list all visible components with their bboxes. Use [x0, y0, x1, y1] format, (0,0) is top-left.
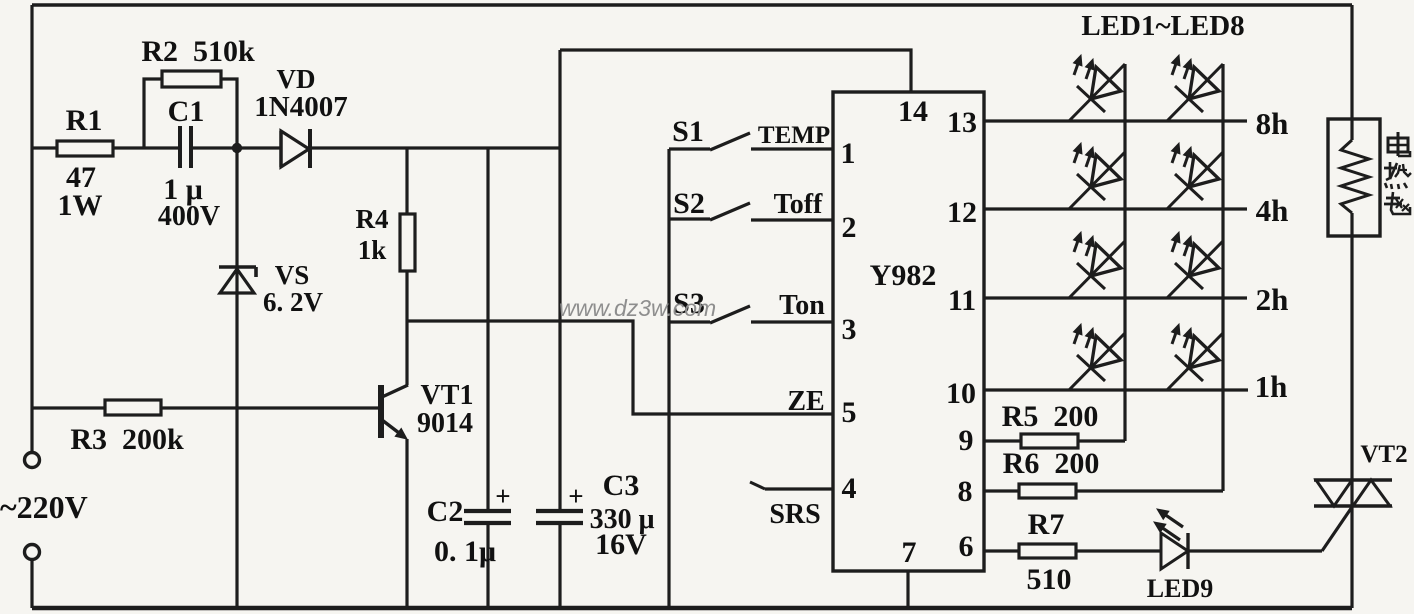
- triac VT2: [1314, 480, 1392, 506]
- label LED9: [1147, 574, 1213, 603]
- svg-text:14: 14: [898, 95, 928, 128]
- watermark www.dz3w.com: [559, 295, 716, 321]
- resistor R5: [1021, 434, 1078, 448]
- LED LED8: [1167, 324, 1223, 390]
- svg-text:12: 12: [947, 196, 977, 229]
- label Toff: [774, 189, 823, 220]
- svg-text:R7: R7: [1028, 508, 1065, 541]
- svg-text:VD: VD: [277, 64, 316, 94]
- svg-text:10: 10: [946, 377, 976, 410]
- svg-text:5: 5: [842, 396, 857, 429]
- label C2 value 0.1u: [434, 535, 496, 568]
- svg-text:C1: C1: [168, 95, 205, 128]
- label S1: [672, 115, 704, 148]
- label pin 13: [947, 106, 977, 139]
- LED LED3: [1069, 232, 1125, 298]
- diode VD 1N4007: [281, 129, 310, 168]
- label pin 4: [842, 472, 857, 505]
- LED LED7: [1167, 232, 1223, 298]
- wire LED column 2: [1221, 64, 1224, 491]
- wire R3 to VT1 base: [160, 406, 381, 409]
- svg-text:8: 8: [958, 475, 973, 508]
- resistor heating element zigzag: [1341, 140, 1369, 213]
- wire triac gate diagonal: [1322, 507, 1352, 551]
- svg-text:8h: 8h: [1256, 106, 1289, 141]
- label VS value 6.2V: [263, 287, 324, 317]
- node AC terminal lower: [25, 545, 40, 560]
- label C2: [427, 495, 464, 528]
- svg-text:VT1: VT1: [421, 380, 474, 411]
- svg-text:Toff: Toff: [774, 189, 823, 220]
- label 8h: [1256, 106, 1289, 141]
- wire pin 9 to R5: [984, 439, 1021, 442]
- wire collector to ZE pin 5: [407, 321, 833, 414]
- wire pin 6 to R7: [984, 549, 1019, 552]
- label SRS: [769, 499, 820, 530]
- wire Toff to pin 2: [751, 218, 833, 221]
- wire C2 top lead: [486, 148, 489, 510]
- wire pin 8 to R6: [984, 489, 1019, 492]
- svg-text:1k: 1k: [358, 235, 387, 265]
- label R1 value 47: [66, 161, 96, 194]
- IC U1 Y982 body: [833, 92, 984, 571]
- label 2h: [1256, 282, 1289, 317]
- svg-text:VS: VS: [275, 260, 310, 290]
- svg-text:11: 11: [948, 284, 976, 317]
- wire top rail down to heater: [1350, 5, 1353, 140]
- label LED1~LED8: [1081, 10, 1244, 42]
- label pin 5: [842, 396, 857, 429]
- label VT2: [1360, 441, 1407, 468]
- svg-text:TEMP: TEMP: [758, 122, 830, 149]
- svg-text:LED1~LED8: LED1~LED8: [1081, 10, 1244, 42]
- label pin 3: [842, 313, 857, 346]
- label C2 plus: [495, 481, 510, 511]
- label pin 11: [948, 284, 976, 317]
- svg-text:2h: 2h: [1256, 282, 1289, 317]
- wire VS vertical: [235, 148, 238, 608]
- wire TEMP to pin 1: [751, 147, 833, 150]
- switch S1: [669, 133, 750, 150]
- wire row 8h from pin 13: [984, 119, 1247, 122]
- resistor R1: [57, 141, 113, 156]
- label pin 9: [959, 424, 974, 457]
- resistor R7: [1019, 544, 1076, 558]
- label R7: [1028, 508, 1065, 541]
- wire C3 top lead: [558, 50, 561, 510]
- svg-text:C2: C2: [427, 495, 464, 528]
- LED LED1: [1069, 55, 1125, 121]
- label VT1 value 9014: [417, 408, 473, 439]
- LED LED5: [1167, 55, 1223, 121]
- wire row 2h from pin 11: [984, 296, 1247, 299]
- label S3: [673, 287, 705, 320]
- svg-text:13: 13: [947, 106, 977, 139]
- wire R3 left: [32, 406, 105, 409]
- capacitor C3 plates: [536, 511, 583, 523]
- label R3 200k: [70, 423, 184, 456]
- wire R1 to C1: [112, 146, 180, 149]
- capacitor C1 plates: [180, 126, 191, 168]
- wire C2 bottom lead: [486, 524, 489, 608]
- switch S3: [669, 306, 750, 323]
- wire row 1h from pin 10: [984, 388, 1248, 391]
- node junction dot at 237,148: [232, 143, 242, 153]
- svg-text:Y982: Y982: [870, 259, 937, 292]
- wire heater to triac: [1350, 213, 1353, 507]
- wire main line left segment: [32, 146, 58, 149]
- svg-text:6: 6: [959, 530, 974, 563]
- label S2: [673, 187, 705, 220]
- svg-text:VT2: VT2: [1360, 441, 1407, 468]
- wire R4 to collector: [405, 270, 408, 385]
- resistor R6: [1019, 484, 1076, 498]
- svg-text:400V: 400V: [158, 201, 220, 232]
- transistor VT1 emitter: [382, 420, 407, 439]
- wire C1 to VD: [191, 146, 281, 149]
- resistor R2: [162, 71, 221, 87]
- wire R2 right leg: [220, 79, 237, 148]
- svg-text:7: 7: [902, 536, 917, 569]
- wire lower terminal to bottom rail: [30, 560, 33, 608]
- label pin 10: [946, 377, 976, 410]
- node AC terminal upper: [25, 453, 40, 468]
- label pin 14: [898, 95, 928, 128]
- label R4: [356, 204, 389, 234]
- label pin 7: [902, 536, 917, 569]
- wire VT1 emitter to ground: [405, 439, 408, 608]
- label C3 plus: [568, 481, 583, 511]
- svg-text:ZE: ZE: [787, 386, 824, 417]
- label VD value 1N4007: [254, 91, 347, 123]
- wire R2 left leg: [144, 79, 163, 148]
- resistor R3: [105, 400, 161, 415]
- wire switch common bus: [667, 149, 670, 608]
- label R1 value 1W: [58, 189, 103, 222]
- svg-text:1h: 1h: [1255, 369, 1288, 404]
- svg-text:+: +: [568, 481, 583, 511]
- heating element blanket box: [1328, 119, 1380, 236]
- transistor VT1 collector: [382, 385, 408, 397]
- label C1 value 1u: [163, 173, 203, 206]
- svg-text:1W: 1W: [58, 189, 103, 222]
- wire top AC rail: [32, 3, 1352, 6]
- wire SRS to pin 4: [750, 482, 833, 489]
- svg-text:R2 510k: R2 510k: [141, 35, 255, 68]
- svg-text:2: 2: [842, 211, 857, 244]
- label Y982: [870, 259, 937, 292]
- svg-text:~220V: ~220V: [0, 489, 88, 525]
- wire C3 bottom lead: [558, 524, 561, 608]
- label 1h: [1255, 369, 1288, 404]
- label VD: [277, 64, 316, 94]
- label pin 8: [958, 475, 973, 508]
- label pin 2: [842, 211, 857, 244]
- label pin 1: [841, 137, 856, 170]
- svg-text:1: 1: [841, 137, 856, 170]
- svg-text:www.dz3w.com: www.dz3w.com: [559, 295, 716, 321]
- wire left vertical (AC live): [30, 5, 33, 452]
- svg-text:R5 200: R5 200: [1002, 400, 1099, 433]
- svg-text:+: +: [495, 481, 510, 511]
- wire LED column 1: [1123, 64, 1126, 441]
- wire triac to ground rail: [1350, 506, 1353, 608]
- label VT1: [421, 380, 474, 411]
- zener VS: [219, 267, 256, 293]
- wire LED9 to gate: [1188, 549, 1322, 552]
- label pin 6: [959, 530, 974, 563]
- wire bottom ground rail: [32, 606, 1352, 611]
- svg-text:6. 2V: 6. 2V: [263, 287, 324, 317]
- wire row 4h from pin 12: [984, 207, 1247, 210]
- label R4 value 1k: [358, 235, 387, 265]
- label C3 value 16V: [595, 528, 647, 561]
- label R7 value 510: [1027, 563, 1072, 596]
- svg-text:R6 200: R6 200: [1003, 447, 1100, 480]
- capacitor C2 plates: [464, 511, 511, 523]
- svg-text:4: 4: [842, 472, 857, 505]
- wire R7 to LED9: [1076, 549, 1161, 552]
- svg-text:C3: C3: [603, 469, 640, 502]
- svg-text:R4: R4: [356, 204, 389, 234]
- label C1: [168, 95, 205, 128]
- svg-text:R1: R1: [66, 104, 103, 137]
- label heating blanket Chinese: [1384, 132, 1411, 214]
- label VS: [275, 260, 310, 290]
- wire R5 to column 1: [1078, 439, 1125, 442]
- LED LED4: [1069, 324, 1125, 390]
- label ~220V: [0, 489, 88, 525]
- label Ton: [779, 290, 825, 321]
- svg-text:S1: S1: [672, 115, 704, 148]
- label pin 12: [947, 196, 977, 229]
- label R1: [66, 104, 103, 137]
- svg-text:R3 200k: R3 200k: [70, 423, 184, 456]
- label R2 510k: [141, 35, 255, 68]
- svg-text:9014: 9014: [417, 408, 473, 439]
- svg-text:0. 1μ: 0. 1μ: [434, 535, 496, 568]
- label ZE: [787, 386, 824, 417]
- label R6 200: [1003, 447, 1100, 480]
- svg-text:1N4007: 1N4007: [254, 91, 347, 123]
- wire pin 7 to ground: [906, 571, 909, 608]
- LED LED9: [1154, 509, 1188, 569]
- label C3: [603, 469, 640, 502]
- label TEMP: [758, 122, 830, 149]
- svg-text:16V: 16V: [595, 528, 647, 561]
- LED LED2: [1069, 143, 1125, 209]
- svg-text:SRS: SRS: [769, 499, 820, 530]
- transistor VT1 base bar: [378, 385, 384, 438]
- svg-text:4h: 4h: [1256, 193, 1289, 228]
- resistor R4: [400, 214, 415, 271]
- wire VD to C3 node: [310, 146, 560, 149]
- svg-text:Ton: Ton: [779, 290, 825, 321]
- svg-text:510: 510: [1027, 563, 1072, 596]
- svg-text:LED9: LED9: [1147, 574, 1213, 603]
- wire Vdd top to pin 14: [560, 50, 911, 93]
- wire Ton to pin 3: [751, 320, 833, 323]
- wire R4 top lead: [405, 148, 408, 215]
- svg-text:3: 3: [842, 313, 857, 346]
- label 4h: [1256, 193, 1289, 228]
- wire R6 to column 2: [1076, 489, 1223, 492]
- svg-text:9: 9: [959, 424, 974, 457]
- switch S2: [669, 203, 750, 220]
- label C3 value 330u: [590, 504, 655, 535]
- svg-text:S2: S2: [673, 187, 705, 220]
- label C1 value 400V: [158, 201, 220, 232]
- label R5 200: [1002, 400, 1099, 433]
- LED LED6: [1167, 143, 1223, 209]
